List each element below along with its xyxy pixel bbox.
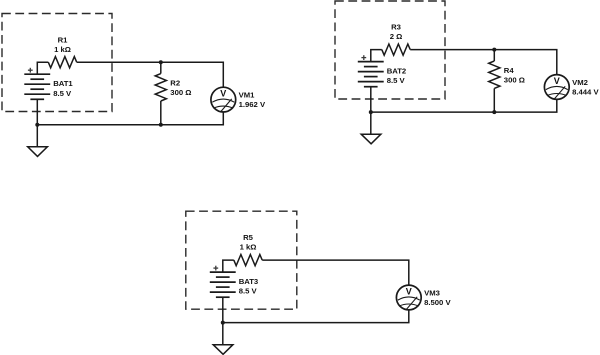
wire shunt bottom lead xyxy=(160,101,162,125)
wire shunt top lead xyxy=(160,62,162,73)
svg-text:V: V xyxy=(220,88,226,98)
svg-text:2 Ω: 2 Ω xyxy=(390,32,403,41)
svg-text:R5: R5 xyxy=(243,233,254,242)
wire battery - to ground node xyxy=(370,87,372,135)
svg-text:VM3: VM3 xyxy=(424,289,440,298)
junction battery/ground node xyxy=(369,110,373,114)
wire shunt bottom lead xyxy=(493,88,495,112)
dashed box (source network BAT1) xyxy=(2,14,112,112)
battery + polarity mark xyxy=(213,266,218,271)
svg-text:BAT1: BAT1 xyxy=(53,79,73,88)
svg-text:8.500 V: 8.500 V xyxy=(424,298,451,307)
svg-text:VM2: VM2 xyxy=(572,78,588,87)
ground xyxy=(28,147,48,157)
ground xyxy=(213,345,233,355)
wire battery - to ground node xyxy=(36,99,38,147)
wire top rail xyxy=(410,50,557,75)
svg-text:BAT3: BAT3 xyxy=(239,277,259,286)
svg-text:V: V xyxy=(554,76,560,86)
wire top rail xyxy=(77,62,224,87)
battery + polarity mark xyxy=(28,68,33,73)
svg-text:R2: R2 xyxy=(170,79,180,88)
svg-text:300 Ω: 300 Ω xyxy=(170,88,191,97)
battery BAT1 xyxy=(24,74,50,99)
junction battery/ground node xyxy=(221,321,225,325)
svg-text:R4: R4 xyxy=(504,66,515,75)
wire bottom rail xyxy=(371,99,557,112)
wire bottom rail xyxy=(223,310,409,323)
svg-text:BAT2: BAT2 xyxy=(387,67,407,76)
resistor R4 xyxy=(489,61,500,88)
wire battery + to R xyxy=(371,50,382,62)
ground xyxy=(361,134,381,144)
voltmeter VM3 xyxy=(396,285,421,310)
svg-text:R3: R3 xyxy=(391,23,401,32)
svg-text:8.5 V: 8.5 V xyxy=(239,287,258,296)
wire battery + to R xyxy=(223,260,234,272)
resistor R1 xyxy=(48,57,76,68)
svg-text:V: V xyxy=(406,286,412,296)
battery + polarity mark xyxy=(361,55,366,60)
resistor R3 xyxy=(382,44,410,55)
dashed box (source network BAT2) xyxy=(335,1,445,99)
svg-text:1 kΩ: 1 kΩ xyxy=(240,243,257,252)
wire bottom rail xyxy=(37,112,223,125)
wire top rail xyxy=(262,260,409,285)
wire battery - to ground node xyxy=(222,297,224,345)
svg-text:300 Ω: 300 Ω xyxy=(504,76,525,85)
battery BAT3 xyxy=(210,272,236,297)
resistor R5 xyxy=(234,255,262,266)
dashed box (source network BAT3) xyxy=(186,211,297,309)
wire battery + to R xyxy=(37,62,48,74)
junction shunt top xyxy=(159,60,163,64)
junction battery/ground node xyxy=(35,123,39,127)
junction shunt top xyxy=(492,48,496,52)
voltmeter VM2 xyxy=(544,75,569,100)
svg-text:1 kΩ: 1 kΩ xyxy=(54,45,71,54)
svg-text:1.962 V: 1.962 V xyxy=(239,100,266,109)
svg-text:8.5 V: 8.5 V xyxy=(387,76,406,85)
svg-text:8.5 V: 8.5 V xyxy=(53,89,72,98)
junction shunt bottom xyxy=(492,110,496,114)
wire shunt top lead xyxy=(493,50,495,61)
svg-text:R1: R1 xyxy=(58,35,69,44)
resistor R2 xyxy=(155,74,166,101)
junction shunt bottom xyxy=(159,123,163,127)
svg-text:VM1: VM1 xyxy=(239,91,256,100)
voltmeter VM1 xyxy=(211,87,236,112)
svg-text:8.444 V: 8.444 V xyxy=(572,88,599,97)
battery BAT2 xyxy=(358,62,384,87)
